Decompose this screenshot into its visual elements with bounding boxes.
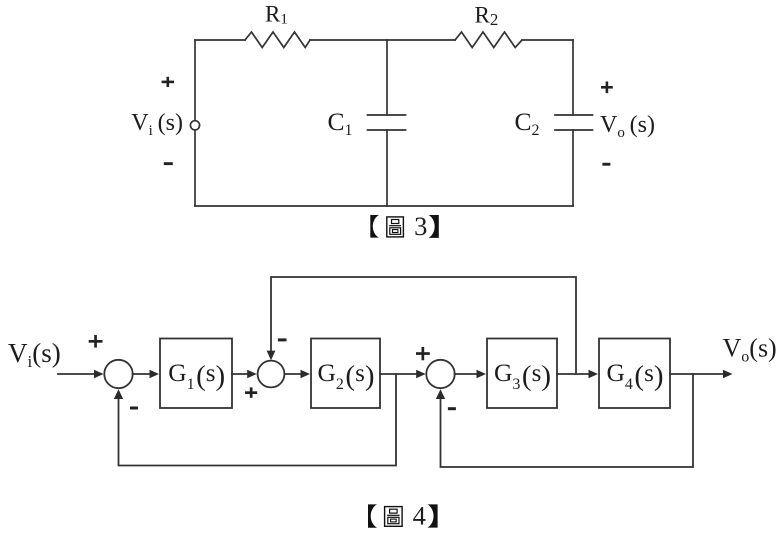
node Vi terminal circle	[190, 121, 199, 130]
label minus mid left	[164, 162, 173, 165]
label plus at S1	[89, 335, 103, 348]
arrowhead bottom feedback up into S3	[436, 389, 445, 399]
label plus at S2	[245, 387, 257, 397]
arrowhead into S2	[247, 370, 257, 379]
svg-text:G3(s): G3(s)	[494, 358, 551, 393]
block G2	[311, 339, 380, 409]
wire G4 to output with tap junction	[670, 373, 724, 375]
arrowhead into G3	[477, 370, 487, 379]
svg-text:C2: C2	[515, 107, 540, 139]
block G3	[487, 339, 557, 409]
label minus at S1	[130, 407, 138, 410]
caption figure 3	[370, 211, 439, 241]
wire right vertical lower	[572, 130, 574, 206]
wire input arrow line	[58, 373, 95, 375]
wire left vertical lower	[194, 130, 196, 206]
arrowhead into G4	[589, 370, 599, 379]
right lenticular bracket	[429, 215, 439, 238]
CJK glyph tu (figure)	[385, 507, 403, 527]
resistor R1	[245, 32, 310, 48]
wire feedback bottom 1: tap after G2 down to S1	[119, 374, 397, 466]
wire G2 to S3 with tap junction	[380, 373, 417, 375]
svg-text:C1: C1	[328, 107, 353, 139]
svg-text:R1: R1	[265, 2, 288, 28]
wire middle vertical lower	[386, 130, 388, 206]
wire G1 to S2	[232, 373, 248, 375]
summing junction S1	[104, 360, 132, 388]
summing junction S2	[258, 361, 285, 388]
arrowhead into S1	[94, 370, 104, 379]
svg-text:Vi(s): Vi(s)	[8, 338, 61, 371]
wire feedback top: tap between G3 and G4 up and left to S2	[271, 277, 576, 374]
capacitor C2	[555, 115, 593, 130]
left lenticular bracket	[368, 504, 377, 527]
wire left vertical upper	[194, 40, 196, 121]
svg-text:Vo(s): Vo(s)	[723, 334, 777, 366]
wire feedback bottom 2: tap after G4 down to S3	[441, 374, 694, 467]
wire bottom	[195, 205, 573, 207]
svg-text:Vo (s): Vo (s)	[600, 112, 655, 141]
wire top left segment	[195, 39, 245, 41]
label minus mid right	[602, 163, 610, 166]
capacitor C1	[368, 115, 406, 130]
arrowhead bottom feedback up into S1	[114, 389, 123, 399]
wire S2 to G2	[285, 373, 303, 375]
resistor R2	[455, 32, 522, 48]
arrowhead into G2	[301, 370, 311, 379]
block G1	[160, 339, 232, 409]
svg-text:G4(s): G4(s)	[607, 358, 664, 393]
label plus at S3	[416, 347, 430, 360]
arrowhead into S3	[416, 370, 426, 379]
CJK glyph tu (figure)	[387, 217, 404, 237]
label plus top left	[162, 77, 174, 87]
wire top right segment	[522, 39, 573, 41]
svg-text:3: 3	[414, 211, 427, 241]
svg-text:Vi (s): Vi (s)	[131, 110, 183, 139]
wire right vertical upper	[572, 40, 574, 115]
right lenticular bracket	[427, 504, 437, 527]
wire G3 to G4 with tap junction	[557, 373, 590, 375]
caption figure 4	[368, 501, 438, 531]
arrowhead output	[723, 370, 733, 379]
svg-text:G2(s): G2(s)	[318, 358, 375, 393]
left lenticular bracket	[370, 215, 379, 238]
label plus top right	[601, 82, 613, 94]
svg-text:4: 4	[413, 501, 426, 531]
wire top middle segment	[310, 39, 455, 41]
label minus at S3	[448, 407, 456, 410]
summing junction S3	[426, 360, 454, 388]
arrowhead into G1	[150, 370, 160, 379]
label minus at S2	[278, 338, 287, 341]
svg-text:G1(s): G1(s)	[168, 358, 225, 393]
svg-text:R2: R2	[475, 3, 499, 30]
wire S1 to G1	[133, 373, 152, 375]
wire middle vertical upper	[386, 40, 388, 115]
arrowhead top feedback down into S2	[267, 351, 276, 361]
wire S3 to G3	[455, 373, 479, 375]
block G4	[599, 339, 670, 409]
